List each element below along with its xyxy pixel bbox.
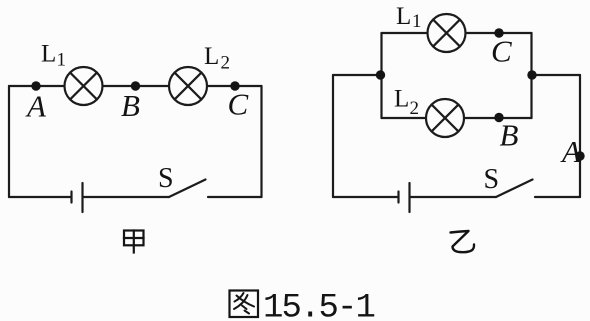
- label 乙 (hand drawn CJK): [451, 231, 475, 252]
- svg-text:S: S: [484, 164, 500, 195]
- battery (left circuit) negative plate: [70, 192, 72, 203]
- svg-text:L: L: [396, 3, 411, 30]
- wire: left circuit bottom, battery to left corner: [9, 196, 71, 198]
- switch S (left circuit) open blade: [169, 180, 206, 198]
- node B dot (right circuit): [494, 113, 503, 122]
- node dot right junction (right circuit): [527, 70, 536, 79]
- battery (right circuit) positive plate: [408, 183, 410, 212]
- lamp L2 (left circuit) circle: [169, 67, 207, 105]
- svg-text:2: 2: [221, 53, 231, 74]
- svg-text:S: S: [158, 163, 174, 194]
- lamp L1 (left circuit) circle: [65, 67, 103, 105]
- wire: switch contact to right corner: [535, 196, 580, 198]
- wire: right circuit outer right vertical: [579, 75, 581, 197]
- node B dot (left circuit): [131, 81, 140, 90]
- switch S (right circuit) open blade: [496, 180, 533, 198]
- node dot left junction (right circuit): [376, 70, 385, 79]
- battery (right circuit) negative plate: [397, 192, 399, 203]
- node A dot (right circuit): [575, 151, 584, 160]
- lamp L2 cross: [432, 105, 459, 132]
- svg-text:2: 2: [410, 98, 420, 119]
- wire: right branch junction vertical: [530, 33, 532, 118]
- svg-text:C: C: [491, 34, 512, 69]
- wire: left junction to outer left: [333, 74, 382, 76]
- svg-text:A: A: [25, 89, 47, 124]
- svg-text:15.5-1: 15.5-1: [263, 290, 375, 321]
- node C dot (left circuit): [230, 81, 239, 90]
- lamp L2 cross: [175, 73, 202, 100]
- node C dot (right circuit): [494, 28, 503, 37]
- svg-text:C: C: [228, 87, 249, 122]
- svg-text:B: B: [121, 88, 140, 123]
- caption character 图 (hand drawn CJK): [230, 291, 259, 318]
- battery (left circuit) positive plate: [81, 183, 83, 212]
- lamp L1 (right circuit) circle: [428, 14, 466, 52]
- svg-text:1: 1: [57, 50, 67, 71]
- svg-text:L: L: [41, 41, 56, 68]
- wire: right circuit top branch: [382, 32, 532, 34]
- wire: left circuit left vertical: [8, 86, 10, 197]
- wire: switch contact to right corner: [208, 196, 262, 198]
- wire: left circuit top conductor A-B-C: [9, 85, 262, 87]
- wire: battery to switch pivot: [84, 196, 170, 198]
- wire: right circuit bottom, left corner to battery: [333, 196, 398, 198]
- svg-text:1: 1: [412, 11, 422, 32]
- label 甲 (hand drawn CJK): [124, 231, 144, 253]
- wire: right circuit bottom branch: [382, 117, 532, 119]
- svg-text:L: L: [204, 43, 219, 70]
- svg-text:B: B: [500, 118, 519, 153]
- wire: right junction to outer right: [532, 74, 581, 76]
- lamp L1 cross: [433, 20, 460, 47]
- wire: battery to switch pivot: [411, 196, 497, 198]
- svg-text:L: L: [394, 86, 409, 113]
- svg-text:A: A: [560, 134, 582, 169]
- lamp L2 (right circuit) circle: [426, 99, 464, 137]
- lamp L1 cross: [70, 73, 97, 100]
- wire: left branch junction vertical: [380, 33, 382, 118]
- wire: right circuit outer left vertical: [332, 75, 334, 197]
- node A dot (left circuit): [31, 81, 40, 90]
- wire: left circuit right vertical: [260, 86, 262, 197]
